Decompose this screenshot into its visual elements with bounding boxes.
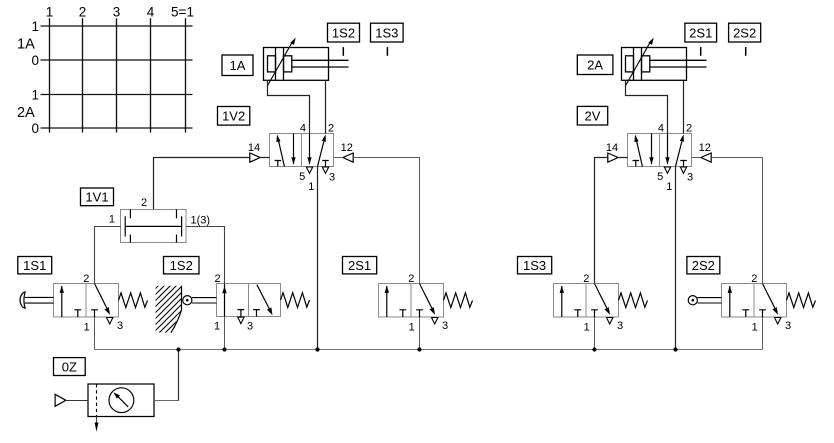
svg-text:5=1: 5=1 — [171, 5, 194, 20]
label box 1S3 top — [371, 23, 404, 42]
wire 1S1 port 1 to supply bus — [94, 317, 96, 350]
svg-text:1: 1 — [752, 321, 758, 333]
cylinder 2A adjustable-cushioning arrow — [625, 38, 653, 86]
junction 1S3/bus — [592, 347, 596, 351]
svg-text:3: 3 — [687, 171, 693, 183]
junction 0Z/bus — [176, 347, 180, 351]
label box 1S3 — [518, 257, 552, 274]
svg-text:4: 4 — [300, 123, 306, 135]
valve 1S2 right box blocked T — [253, 310, 260, 317]
svg-text:1: 1 — [31, 87, 39, 102]
valve 1S2 3/2-way roller actuated body — [217, 284, 281, 317]
wire 2S1 port 1 to supply bus — [419, 317, 421, 350]
valve 1V1 two-pressure valve body — [121, 210, 187, 243]
label box 2S2 — [687, 257, 720, 274]
valve 1S2 cam hatched trip dog — [148, 236, 196, 362]
valve 1S3 diagonal arrow 2 to 3 — [595, 284, 611, 315]
svg-text:2A: 2A — [587, 57, 603, 72]
label box 1S2 — [164, 257, 200, 274]
svg-text:1: 1 — [308, 181, 314, 193]
svg-text:12: 12 — [341, 142, 353, 154]
valve 1V2 right box blocked port 3 T — [322, 161, 329, 167]
svg-text:2: 2 — [408, 273, 414, 285]
displacement-step diagram grid — [41, 18, 193, 132]
wire cylinder 2A left port to valve 2V port 4 — [626, 80, 668, 133]
wire 1S3 port 1 to supply bus — [594, 317, 596, 350]
valve 2S2 port labels — [751, 273, 791, 334]
valve 1S3 3/2-way body — [554, 284, 619, 318]
position tick 2S1 — [700, 47, 702, 56]
svg-text:3: 3 — [329, 171, 335, 183]
svg-text:2A: 2A — [17, 105, 35, 121]
valve 2S1 return spring — [444, 293, 473, 308]
valve 2V left box blocked port T — [633, 161, 640, 167]
air service unit 0Z drain arrow — [95, 417, 99, 432]
valve 1V2 left box blocked port T — [275, 161, 282, 167]
label box 2S1 top — [685, 23, 717, 42]
valve 1S3 exhaust triangle port 3 — [607, 318, 613, 325]
label box 2A — [577, 55, 613, 75]
valve 1V2 left box down arrow — [291, 134, 295, 165]
valve 2S2 return spring — [787, 293, 816, 308]
label box 2S2 top — [729, 23, 761, 42]
valve 2V right box blocked port 3 T — [680, 161, 687, 167]
svg-text:0Z: 0Z — [62, 359, 77, 374]
valve 2S1 left box up arrow — [385, 286, 389, 317]
valve 1S3 return spring — [619, 293, 648, 308]
svg-text:14: 14 — [248, 142, 260, 154]
wire 1S3 port 2 to 2V pilot 14 — [595, 158, 628, 284]
label box 1V1 — [81, 188, 114, 206]
svg-text:1S2: 1S2 — [170, 258, 193, 273]
wire 1V1 port 2 to 1V2 pilot 14 — [154, 158, 270, 210]
valve 1S1 diagonal arrow 2 to 3 — [95, 284, 111, 315]
svg-text:2S2: 2S2 — [733, 25, 756, 40]
wire cylinder 1A left port to valve 1V2 port 4 — [268, 80, 310, 133]
valve 2V port labels — [606, 123, 711, 193]
valve 1V1 port labels — [109, 197, 210, 226]
svg-text:4: 4 — [658, 123, 664, 135]
wire 1V2 pilot 12 to 2S1 port 2 — [334, 158, 420, 284]
wire 0Z output horizontal — [154, 400, 179, 402]
valve 1S3 port labels — [583, 273, 623, 334]
valve 1S1 return spring — [119, 293, 148, 308]
svg-text:3: 3 — [785, 320, 791, 332]
valve 1V2 left box diagonal arrow — [276, 135, 284, 167]
valve 2S2 3/2-way body — [722, 284, 787, 318]
valve 2V 5/2-way body — [628, 134, 692, 167]
junction 1S2/bus — [222, 347, 226, 351]
valve 1S1 3/2-way body — [54, 284, 119, 318]
junction 2V/bus — [673, 347, 677, 351]
svg-text:1: 1 — [109, 213, 115, 225]
step diagram row labels 2A — [17, 87, 39, 136]
valve 1V1 shuttle internals — [125, 210, 181, 243]
label box 0Z — [54, 358, 86, 376]
svg-text:1: 1 — [46, 5, 54, 20]
svg-text:0: 0 — [31, 53, 39, 68]
label box 1S1 — [18, 257, 52, 274]
valve 2S1 diagonal arrow 2 to 3 — [420, 284, 436, 315]
valve 1S2 port labels — [214, 273, 253, 333]
valve 1V2 exhaust triangle port 3 — [322, 167, 328, 173]
wire 1S2 port 1 to supply bus — [224, 317, 226, 350]
position tick 1S2 — [342, 47, 344, 56]
step diagram column labels — [46, 5, 194, 20]
valve 2S2 left box up arrow — [728, 286, 732, 317]
cylinder 1A adjustable-cushioning arrow — [267, 38, 295, 86]
valve 1S3 left box up arrow — [560, 286, 564, 317]
valve 1S2 exhaust triangle port 3 — [238, 317, 244, 324]
svg-text:1: 1 — [409, 321, 415, 333]
svg-text:5: 5 — [657, 171, 663, 183]
valve 2S2 blocked port 1 T — [759, 310, 766, 317]
valve 2S2 exhaust triangle port 3 — [775, 318, 781, 325]
cylinder 1A body — [264, 48, 349, 81]
valve 2V pilot triangle 14 — [608, 153, 618, 162]
label box 1S2 top — [328, 23, 360, 42]
svg-text:1: 1 — [31, 19, 39, 34]
valve 1S2 flow line 1 to 2 up arrow — [222, 284, 226, 317]
valve 1S2 roller actuator — [183, 296, 217, 305]
valve 2S2 diagonal arrow 2 to 3 — [763, 284, 779, 315]
svg-text:3: 3 — [117, 320, 123, 332]
svg-text:3: 3 — [617, 320, 623, 332]
valve 1S3 left box blocked T — [574, 310, 581, 317]
valve 1S1 exhaust triangle port 3 — [107, 318, 113, 325]
svg-text:2: 2 — [583, 273, 589, 285]
wire 2S2 port 1 to supply bus — [762, 317, 764, 350]
svg-text:1A: 1A — [230, 58, 246, 73]
svg-text:2: 2 — [328, 123, 334, 135]
valve 1S1 pushbutton actuator — [20, 292, 53, 308]
valve 2S1 left box blocked T — [399, 310, 406, 317]
svg-text:1: 1 — [584, 321, 590, 333]
svg-text:2: 2 — [141, 197, 147, 209]
wire supply triangle to 0Z — [66, 400, 88, 402]
label box 2V — [577, 106, 607, 125]
svg-text:4: 4 — [147, 5, 155, 20]
valve 1S2 right box diagonal arrow — [257, 285, 273, 315]
svg-text:1V1: 1V1 — [85, 190, 108, 205]
position tick 1S3 — [386, 47, 388, 56]
svg-text:2: 2 — [83, 273, 89, 285]
valve 1V2 right box diagonal arrow 1 to 2 — [318, 134, 326, 166]
svg-text:1S3: 1S3 — [523, 258, 546, 273]
svg-text:2S1: 2S1 — [348, 258, 371, 273]
valve 2V right box diagonal arrow 1 to 2 — [676, 134, 684, 166]
svg-text:1A: 1A — [17, 37, 35, 53]
air service unit 0Z body — [88, 384, 154, 417]
wire cylinder 1A right port to valve 1V2 port 2 — [325, 80, 327, 133]
valve 2V left box down arrow — [649, 134, 653, 165]
valve 2S1 blocked port 1 T — [416, 310, 423, 317]
svg-text:2V: 2V — [585, 108, 601, 123]
valve 1S1 left box blocked T — [74, 310, 81, 317]
valve 1V2 right box down arrow 4 to 5 — [307, 134, 311, 165]
valve 1V2 exhaust triangle port 5 — [306, 167, 312, 173]
svg-text:5: 5 — [299, 171, 305, 183]
svg-text:3: 3 — [113, 5, 121, 20]
svg-text:1: 1 — [666, 181, 672, 193]
wire 1V1 port 1 to 1S1 port 2 — [95, 227, 121, 284]
air service unit 0Z dashed separator — [96, 384, 98, 417]
valve 1S3 blocked port 1 T — [591, 310, 598, 317]
valve 1V2 port labels — [248, 123, 353, 193]
svg-text:2S2: 2S2 — [692, 258, 715, 273]
valve 2V exhaust triangle port 3 — [680, 167, 686, 173]
valve 2V left box diagonal arrow — [634, 135, 642, 167]
air service unit 0Z gauge — [109, 388, 134, 413]
svg-text:14: 14 — [606, 142, 618, 154]
valve 2S1 port labels — [408, 273, 448, 334]
valve 2V right box down arrow 4 to 5 — [665, 134, 669, 165]
svg-text:1S3: 1S3 — [375, 25, 398, 40]
step diagram row labels 1A — [17, 19, 39, 68]
valve 1S2 return spring — [281, 293, 310, 308]
svg-text:1V2: 1V2 — [222, 109, 245, 124]
valve 1S1 port labels — [83, 273, 123, 334]
junction 2S1/bus — [417, 347, 421, 351]
label box 1V2 — [218, 107, 250, 126]
wire cylinder 2A right port to valve 2V port 2 — [683, 80, 685, 133]
wire supply bus — [95, 349, 763, 351]
valve 2S2 roller actuator — [688, 296, 721, 305]
valve 2S2 left box blocked T — [742, 310, 749, 317]
valve 1S2 blocked port 3 T — [238, 310, 245, 317]
svg-text:1(3): 1(3) — [191, 214, 211, 226]
wire 2V port 1 to supply bus — [675, 167, 677, 350]
valve 1S1 blocked port 1 T — [91, 310, 98, 317]
svg-text:3: 3 — [442, 320, 448, 332]
valve 2S1 3/2-way body — [379, 284, 444, 318]
compressed air supply source triangle — [55, 394, 66, 406]
wire 1V1 port 1(3) to 1S2 port 2 — [186, 227, 225, 284]
svg-text:2S1: 2S1 — [689, 25, 712, 40]
svg-text:2: 2 — [214, 273, 220, 285]
svg-text:2: 2 — [686, 123, 692, 135]
svg-text:2: 2 — [79, 5, 87, 20]
cylinder 2A body — [622, 48, 707, 81]
svg-text:0: 0 — [31, 121, 39, 136]
wire 1V2 port 1 to supply bus — [317, 167, 319, 350]
valve 2S1 exhaust triangle port 3 — [432, 318, 438, 325]
wire 0Z output riser to supply bus — [178, 350, 180, 401]
svg-text:2: 2 — [751, 273, 757, 285]
label box 1A — [222, 55, 253, 76]
valve 1V2 pilot triangle 12 — [343, 153, 353, 162]
svg-text:12: 12 — [699, 142, 711, 154]
valve 1V2 5/2-way body — [270, 134, 334, 167]
svg-text:1: 1 — [84, 321, 90, 333]
svg-text:3: 3 — [247, 321, 253, 333]
svg-text:1S1: 1S1 — [23, 258, 46, 273]
junction 1V2/bus — [315, 347, 319, 351]
valve 1V2 pilot triangle 14 — [250, 153, 260, 162]
svg-text:1: 1 — [214, 321, 220, 333]
svg-text:1S2: 1S2 — [332, 25, 355, 40]
wire 2V pilot 12 to 2S2 port 2 — [692, 158, 763, 284]
valve 1S1 left box up arrow — [60, 286, 64, 317]
valve 2V exhaust triangle port 5 — [664, 167, 670, 173]
valve 2V pilot triangle 12 — [701, 153, 711, 162]
position tick 2S2 — [745, 47, 747, 56]
label box 2S1 — [343, 257, 377, 274]
